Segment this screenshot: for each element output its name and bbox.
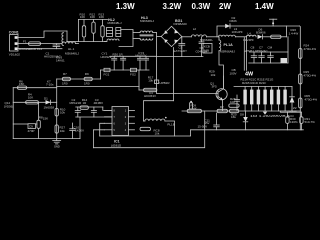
resistor R21G bbox=[283, 87, 286, 112]
svg-text:15-50V: 15-50V bbox=[198, 125, 208, 129]
bottom right rail bbox=[191, 129, 304, 131]
wire y79 bbox=[57, 78, 101, 80]
svg-text:1R0: 1R0 bbox=[84, 82, 90, 86]
wire HL3 to bridge bbox=[157, 36, 162, 38]
svg-text:470P: 470P bbox=[28, 129, 35, 133]
capacitor CB labels bbox=[230, 68, 237, 75]
varistor RU3 bbox=[56, 55, 65, 62]
svg-text:470Ω-4%: 470Ω-4% bbox=[305, 98, 318, 102]
svg-text:D8: D8 bbox=[240, 113, 244, 117]
resistor R09 bbox=[187, 104, 201, 113]
rail y86.5 bbox=[57, 86, 139, 88]
capacitor C8 bbox=[251, 45, 257, 63]
svg-text:UPB2R: UPB2R bbox=[160, 81, 171, 85]
wire HL2 to HL3 top bbox=[119, 30, 133, 47]
resistor R21A bbox=[243, 87, 246, 112]
svg-text:100V: 100V bbox=[230, 71, 237, 75]
component RC7 box bbox=[281, 58, 288, 63]
svg-text:10B: 10B bbox=[204, 49, 209, 53]
diode D8 bbox=[240, 111, 248, 130]
rail end riser bbox=[79, 117, 81, 139]
svg-text:C9: C9 bbox=[29, 124, 33, 128]
K7 vertical bbox=[56, 79, 58, 141]
svg-text:VD1&02: VD1&02 bbox=[9, 52, 21, 56]
svg-text:1R0: 1R0 bbox=[62, 82, 68, 86]
svg-text:14K61: 14K61 bbox=[56, 59, 65, 63]
svg-text:1.3W: 1.3W bbox=[116, 2, 135, 11]
fuse F1 bbox=[19, 40, 42, 52]
inductor L3 bbox=[218, 27, 242, 37]
svg-text:R30 1R: R30 1R bbox=[113, 53, 124, 57]
svg-text:L4: L4 bbox=[248, 31, 252, 35]
svg-text:16k: 16k bbox=[231, 115, 236, 119]
svg-text:510-7%: 510-7% bbox=[305, 120, 316, 124]
wire C11 branch vertical bbox=[204, 111, 206, 130]
diode D2 bbox=[225, 16, 237, 28]
resistor R12 bbox=[90, 12, 96, 41]
svg-text:1N6038: 1N6038 bbox=[44, 106, 55, 110]
svg-text:1K00V: 1K00V bbox=[75, 129, 84, 133]
svg-text:10K: 10K bbox=[80, 15, 85, 19]
svg-text:MPA21R: MPA21R bbox=[70, 101, 83, 105]
riser R26 to rail bbox=[286, 26, 288, 37]
wire C9 row bbox=[13, 123, 28, 125]
thermistor RT1 bbox=[155, 80, 171, 85]
svg-text:3.2W: 3.2W bbox=[163, 2, 182, 11]
svg-text:CM: CM bbox=[268, 45, 273, 49]
resistor R13 bbox=[99, 12, 105, 41]
inner loop bbox=[100, 130, 191, 136]
svg-text:[VD56]: [VD56] bbox=[4, 104, 13, 108]
svg-text:1.4W: 1.4W bbox=[255, 2, 274, 11]
bridge rectifier BG1 bbox=[161, 19, 187, 46]
resistor R31 bbox=[300, 112, 315, 130]
resistor RC8 bbox=[140, 127, 160, 135]
svg-text:R2: R2 bbox=[220, 105, 224, 109]
test point bbox=[190, 101, 193, 109]
jumper FG2 bbox=[130, 68, 137, 76]
resistor R21B bbox=[250, 87, 253, 112]
rail CY1 top bbox=[110, 55, 157, 57]
svg-text:L2: L2 bbox=[193, 27, 197, 31]
power label 4W bbox=[245, 72, 254, 78]
wire PL1A primary to Q1 bbox=[219, 51, 223, 89]
resistor R17 bbox=[144, 75, 157, 98]
rail y70 bbox=[101, 69, 150, 71]
svg-text:R9: R9 bbox=[85, 72, 89, 76]
wire pin4 to outer loop bbox=[93, 130, 104, 148]
resistor R05 bbox=[299, 94, 318, 108]
svg-text:HK0/63V: HK0/63V bbox=[144, 94, 156, 98]
resistor R27 bbox=[55, 125, 65, 133]
resistor R29 labels bbox=[209, 70, 216, 77]
svg-text:10K: 10K bbox=[90, 15, 95, 19]
svg-text:D3SBA60: D3SBA60 bbox=[174, 22, 188, 26]
resistor R21F bbox=[277, 87, 280, 112]
resistor R6 bbox=[17, 79, 26, 89]
resistor R14 bbox=[80, 98, 88, 109]
terminal T bbox=[270, 19, 277, 26]
transformer PL1A bbox=[219, 37, 247, 71]
transistor Q12 labels bbox=[4, 101, 13, 108]
svg-text:3F5: 3F5 bbox=[212, 85, 218, 89]
svg-text:HK092V: HK092V bbox=[101, 55, 112, 59]
svg-text:M36648LJ: M36648LJ bbox=[140, 19, 155, 23]
power label 1.4W bbox=[255, 2, 274, 11]
resistor R25 bbox=[299, 70, 317, 84]
svg-text:470Ω-4%: 470Ω-4% bbox=[304, 47, 317, 51]
resistor R24 bbox=[299, 43, 317, 58]
wire pin3 to inner loop bbox=[100, 123, 105, 136]
wire R17 row bbox=[139, 89, 157, 91]
resistor R30 bbox=[286, 112, 298, 130]
capacitor C7 bbox=[259, 45, 265, 63]
svg-text:PL1B: PL1B bbox=[167, 122, 174, 126]
svg-text:10K: 10K bbox=[99, 15, 104, 19]
left vertical bbox=[12, 88, 14, 139]
svg-text:PL1A: PL1A bbox=[224, 43, 234, 47]
svg-text:FG1: FG1 bbox=[104, 72, 110, 76]
svg-text:470Ω-4%: 470Ω-4% bbox=[304, 74, 317, 78]
svg-text:0.3W: 0.3W bbox=[192, 2, 211, 11]
capacitor CY2 bbox=[135, 51, 146, 58]
wire coil to rail bbox=[165, 121, 175, 136]
svg-text:130%: 130% bbox=[290, 120, 298, 124]
outer loop bbox=[93, 130, 204, 148]
resistor R21C bbox=[257, 87, 260, 112]
winding PL1B bbox=[144, 117, 175, 127]
wire R30 R31 top bbox=[280, 111, 301, 112]
power label 1.3W bbox=[116, 2, 135, 11]
wire HL1 drop bbox=[66, 31, 68, 42]
resistor R10 bbox=[80, 12, 86, 41]
resistor R8 bbox=[36, 102, 49, 138]
svg-text:DWMAE80R F04: DWMAE80R F04 bbox=[19, 47, 42, 51]
svg-text:15K: 15K bbox=[43, 117, 48, 121]
wire fuse to C1 bbox=[41, 43, 63, 45]
wire lower to HL2 bbox=[79, 41, 107, 43]
capacitor C5 bbox=[174, 37, 188, 57]
wire C2 R14 C3 top bbox=[76, 106, 103, 108]
diode D1 bbox=[44, 96, 55, 109]
wire C2 C3 bottom bbox=[76, 116, 112, 118]
capacitor C2 bbox=[70, 98, 83, 117]
capacitor CY2b bbox=[143, 56, 148, 70]
inductor L4 bbox=[243, 31, 256, 42]
svg-text:10k: 10k bbox=[148, 79, 153, 83]
choke HL2 bbox=[105, 18, 123, 42]
svg-text:15K: 15K bbox=[19, 82, 24, 86]
svg-text:FG2: FG2 bbox=[130, 72, 136, 76]
capacitor C10 bbox=[70, 123, 84, 139]
svg-text:D1: D1 bbox=[44, 96, 48, 100]
caps value text bbox=[244, 49, 268, 53]
resistor R26 bbox=[271, 28, 299, 38]
inductor HL1 vertical winding bbox=[62, 33, 64, 46]
resistor R2 bbox=[217, 105, 227, 113]
wire pin3 bbox=[17, 48, 62, 50]
resistor R21D bbox=[263, 87, 266, 112]
vertical x139 bbox=[138, 70, 140, 90]
bottom left rail bbox=[13, 138, 80, 140]
resistor R7 bbox=[62, 72, 71, 85]
resistor R28 bbox=[229, 97, 239, 107]
svg-text:10k: 10k bbox=[60, 110, 65, 114]
capacitor CY1b bbox=[113, 53, 126, 70]
svg-text:F1: F1 bbox=[23, 40, 27, 44]
vertical x100.5 bbox=[100, 70, 102, 79]
wire R6 row bbox=[13, 87, 57, 89]
power label 0.3W bbox=[192, 2, 211, 11]
wire pin1 to top rail bbox=[17, 31, 67, 38]
svg-text:HPM61 0Z50VAC: HPM61 0Z50VAC bbox=[244, 49, 268, 53]
svg-text:M3R66A8J: M3R66A8J bbox=[220, 49, 235, 53]
capacitor CY2a bbox=[137, 56, 142, 70]
top rail with D2 bbox=[217, 26, 300, 37]
svg-text:D606: D606 bbox=[230, 19, 238, 23]
right bus vertical bbox=[299, 26, 302, 130]
wire loop to coil bbox=[144, 101, 174, 121]
svg-text:W34R: W34R bbox=[289, 109, 298, 113]
power label 2W bbox=[219, 2, 231, 11]
zener Z2 bbox=[289, 87, 298, 114]
svg-text:M36648LJ: M36648LJ bbox=[108, 21, 123, 25]
wire y56.5 bbox=[157, 56, 203, 58]
caps C8 C7 CM rails bbox=[287, 37, 289, 63]
resistor R20 bbox=[229, 109, 238, 119]
svg-text:10k: 10k bbox=[230, 100, 235, 104]
svg-text:HK092V: HK092V bbox=[135, 54, 146, 58]
svg-text:10k: 10k bbox=[155, 131, 160, 135]
transistor Q1 bbox=[157, 82, 228, 112]
small box C6B bbox=[203, 44, 212, 54]
svg-text:R21B R21D R21F: R21B R21D R21F bbox=[242, 81, 266, 85]
inductor HL1 bbox=[62, 42, 80, 56]
svg-text:L6561D: L6561D bbox=[111, 143, 122, 147]
svg-text:10FHPF: 10FHPF bbox=[232, 30, 243, 34]
svg-text:7-10s: 7-10s bbox=[46, 82, 54, 86]
capacitor C11 bbox=[198, 113, 220, 130]
capacitor CM bbox=[268, 45, 274, 63]
rail resistor bank top bbox=[79, 19, 108, 21]
capacitor C9 bbox=[28, 124, 36, 133]
capacitor C3 bbox=[91, 98, 103, 117]
node left riser bbox=[78, 20, 80, 42]
capacitor C1 bbox=[44, 44, 62, 59]
resistor R4 bbox=[26, 93, 39, 104]
svg-text:M36648LJ: M36648LJ bbox=[65, 51, 80, 55]
capacitor CY1a bbox=[101, 52, 117, 70]
svg-text:GND: GND bbox=[54, 145, 60, 149]
svg-text:R7: R7 bbox=[63, 72, 67, 76]
vertical below bridge bbox=[173, 48, 175, 101]
IC U1 box bbox=[105, 107, 135, 148]
output text bbox=[250, 114, 295, 118]
DC wire with L2 bbox=[182, 36, 192, 38]
svg-text:10K: 10K bbox=[28, 96, 33, 100]
svg-text:4R4BV: 4R4BV bbox=[94, 101, 104, 105]
diode D5 bbox=[256, 27, 271, 39]
resistor R9 bbox=[84, 72, 92, 85]
connector CON1 bbox=[9, 31, 21, 57]
relay K7 labels bbox=[46, 79, 54, 86]
svg-text:CON1: CON1 bbox=[9, 31, 19, 35]
svg-text:10k: 10k bbox=[60, 129, 65, 133]
capacitor C13 bbox=[235, 95, 240, 111]
power label 3.2W bbox=[163, 2, 182, 11]
svg-text:B3M06: B3M06 bbox=[256, 30, 266, 34]
arrow down bbox=[263, 112, 267, 115]
svg-text:EATVARY: EATVARY bbox=[174, 49, 188, 53]
wire pin1 IC bbox=[103, 107, 112, 110]
wire R4 row bbox=[13, 101, 57, 103]
choke HL3 bbox=[133, 16, 157, 40]
ground bbox=[53, 141, 61, 149]
resistor array rail bbox=[234, 86, 292, 88]
svg-text:2W: 2W bbox=[219, 2, 231, 11]
svg-text:1.4-4W: 1.4-4W bbox=[289, 31, 299, 35]
svg-text:10k: 10k bbox=[211, 73, 216, 77]
resistor R10b bbox=[55, 108, 66, 116]
array labels bbox=[241, 77, 275, 85]
inductor L2 bbox=[191, 27, 213, 42]
rail y111 bbox=[182, 110, 300, 112]
wire Q1 collector riser bbox=[222, 76, 224, 89]
mid vertical from HL3 bbox=[156, 33, 158, 94]
wire pin2 to fuse bbox=[17, 43, 28, 45]
capacitor C6 bbox=[196, 37, 209, 57]
jumper FG1 bbox=[104, 68, 111, 76]
resistor R21E bbox=[270, 87, 273, 112]
